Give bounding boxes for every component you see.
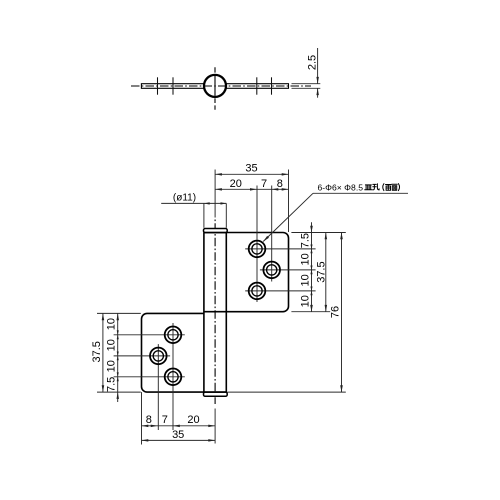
svg-text:8: 8 (146, 414, 152, 426)
svg-text:10: 10 (106, 339, 118, 351)
hole U2 horizontal extension line (260, 269, 316, 271)
hole L3 horizontal extension line (114, 376, 185, 378)
svg-text:2.5: 2.5 (306, 55, 318, 70)
svg-text:7.5: 7.5 (299, 233, 311, 248)
hole U2 vertical extension line (x=271.7) (271, 186, 273, 282)
chain dimension line right (7.5,10,10,10) (311, 222, 313, 232)
extension line leaf right edge up (x=288.5) (288, 170, 290, 233)
hole L2 vertical extension line (x=158.3) (157, 344, 159, 430)
chain dimension line left (10,10,10,7.5) (117, 313, 119, 392)
knuckle top cap (204, 229, 228, 233)
dimension 2.5 leader lines and arrows (317, 48, 319, 84)
hole L2 horizontal extension line (114, 355, 171, 357)
extension line upper leaf bottom edge right (291, 311, 330, 313)
knuckle column right edge (225, 233, 227, 393)
svg-text:20: 20 (230, 178, 242, 190)
extension line lower leaf top edge left (97, 312, 141, 314)
dimension line 20,7,8 (top) (215, 188, 288, 190)
countersunk hole L3 (165, 369, 182, 386)
extension line leaf left edge down (x=141.5) (141, 392, 143, 444)
knuckle column left edge (203, 233, 205, 393)
svg-text:35: 35 (245, 163, 257, 175)
top view hole tick mark x=157.5 (157, 77, 159, 94)
dimension (ø11) extension lines (203, 203, 205, 227)
dimension line 37.5 (left) (102, 313, 104, 392)
top view knuckle circle (204, 75, 226, 97)
hole L1 horizontal extension line (114, 334, 185, 336)
svg-text:10: 10 (299, 295, 311, 307)
top view hole tick mark x=271.5 (271, 77, 273, 94)
front view knuckle centerline (dash-dot) (214, 220, 216, 405)
dimension line 35 (bottom) (142, 439, 216, 441)
svg-text:8: 8 (277, 178, 283, 190)
extension line hinge bottom edge right (228, 391, 346, 393)
svg-text:37.5: 37.5 (91, 341, 103, 362)
note underline (313, 192, 408, 194)
hole U1 horizontal extension line (245, 248, 315, 250)
upper leaf outline (204, 233, 289, 312)
dimension line 8,7,20 (bottom) (142, 425, 216, 427)
note leader line and arrow to hole U1 (263, 193, 313, 241)
dimension line (ø11) with left leader (161, 202, 226, 204)
note fullwidth close paren (398, 184, 399, 191)
countersunk hole U2 (263, 262, 280, 279)
note kanji men (face/side) (392, 184, 398, 190)
dimension line 37.5 (right) (325, 233, 327, 312)
svg-text:10: 10 (299, 253, 311, 265)
dimension 2.5 extension lines (292, 83, 321, 85)
hole U3 horizontal extension line (245, 290, 315, 292)
svg-text:20: 20 (187, 414, 199, 426)
note fullwidth open paren (383, 184, 384, 191)
note kanji kou (hole) (373, 184, 379, 190)
top view hole tick mark x=256.8 (256, 77, 258, 94)
top view vertical centerline through knuckle circle (214, 67, 216, 110)
hole U1 vertical extension line (x=257, through U1 and U3) (256, 186, 258, 303)
svg-text:(ø11): (ø11) (173, 193, 196, 204)
countersunk hole L1 (165, 327, 182, 344)
svg-text:7: 7 (261, 178, 267, 190)
knuckle bottom cap (204, 392, 228, 396)
top view hinge leaf strip outline (141, 84, 288, 89)
top view hole tick mark x=173 (172, 77, 174, 94)
svg-text:7: 7 (162, 414, 168, 426)
front view centerline extension above knuckle (solid) (214, 170, 216, 218)
lower leaf outline (142, 313, 227, 392)
svg-text:10: 10 (106, 360, 118, 372)
front view centerline extension below knuckle (solid) (214, 409, 216, 444)
svg-text:76: 76 (330, 306, 342, 318)
knuckle joint line (204, 311, 226, 313)
countersunk hole L2 (150, 348, 167, 365)
svg-text:35: 35 (172, 429, 184, 441)
extension line upper leaf top edge right (291, 232, 345, 234)
countersunk hole U3 (249, 283, 266, 300)
svg-text:10: 10 (299, 274, 311, 286)
svg-text:10: 10 (106, 318, 118, 330)
svg-text:7.5: 7.5 (106, 377, 118, 392)
note kanji sara (dish/countersink) (365, 185, 372, 190)
note kanji ryou (both) (386, 185, 392, 191)
top view horizontal centerline (131, 85, 311, 87)
svg-text:6-Φ6× Φ8.5: 6-Φ6× Φ8.5 (318, 182, 364, 192)
countersunk hole U1 (249, 241, 266, 258)
svg-text:37.5: 37.5 (315, 261, 327, 282)
dimension line 76 (341, 233, 343, 393)
extension line lower leaf bottom edge left (97, 391, 141, 393)
dimension line 35 (top) (215, 173, 288, 175)
hole L1 vertical extension line (x=173, through L1 and L3) (172, 323, 174, 430)
